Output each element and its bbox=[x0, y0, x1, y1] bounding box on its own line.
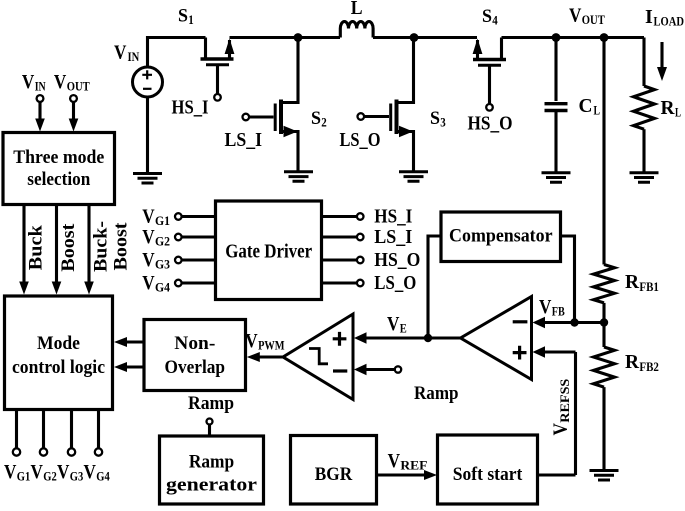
wire S4 to RL corner bbox=[502, 36, 645, 39]
wire S1 to inductor bbox=[230, 36, 341, 39]
gate driver output pins HS_I LS_I HS_O LS_O bbox=[322, 213, 364, 286]
svg-text:FB2: FB2 bbox=[639, 360, 659, 374]
svg-text:G2: G2 bbox=[155, 235, 170, 249]
wire arrow Vin into three mode box bbox=[38, 102, 41, 120]
svg-text:control logic: control logic bbox=[12, 357, 105, 378]
svg-text:generator: generator bbox=[166, 475, 258, 496]
svg-text:FB: FB bbox=[552, 305, 565, 319]
svg-text:V: V bbox=[539, 296, 552, 318]
svg-text:PWM: PWM bbox=[258, 339, 285, 353]
voltage source V_IN bbox=[133, 67, 163, 97]
svg-text:V: V bbox=[142, 226, 155, 248]
svg-text:V: V bbox=[54, 71, 67, 93]
svg-text:G4: G4 bbox=[155, 281, 171, 295]
wire ramp into comparator minus bbox=[366, 368, 395, 371]
wire VOUT down to RFB1 bbox=[602, 38, 605, 265]
svg-text:V: V bbox=[142, 249, 155, 271]
svg-text:Boost: Boost bbox=[111, 222, 132, 271]
svg-text:G4: G4 bbox=[96, 470, 110, 484]
svg-text:S: S bbox=[482, 6, 492, 27]
wire compensator left to VE node bbox=[428, 236, 441, 338]
svg-text:V: V bbox=[4, 461, 17, 483]
ground under S3 bbox=[399, 172, 428, 182]
transistor S2 bbox=[249, 38, 298, 172]
svg-text:V: V bbox=[22, 71, 35, 93]
node VFB tap junction dot bbox=[570, 318, 578, 326]
svg-text:V: V bbox=[550, 423, 572, 436]
label V_REFSS (rotated) bbox=[550, 379, 573, 436]
svg-text:Gate Driver: Gate Driver bbox=[225, 241, 312, 263]
S2 source arrowhead bbox=[284, 126, 298, 138]
svg-text:IN: IN bbox=[128, 50, 140, 64]
load current arrow I_LOAD bbox=[660, 42, 663, 70]
comparator PWM bbox=[283, 314, 353, 400]
block BGR bbox=[291, 436, 377, 505]
wire comparator output VPWM to non-overlap bbox=[257, 355, 283, 358]
ground under S2 bbox=[284, 172, 313, 182]
svg-text:I: I bbox=[645, 6, 653, 28]
svg-text:HS_O: HS_O bbox=[374, 249, 420, 271]
svg-text:HS_I: HS_I bbox=[172, 97, 209, 119]
S1 drain arrowhead bbox=[225, 39, 235, 55]
svg-text:V: V bbox=[114, 41, 127, 63]
error amp minus sign bbox=[513, 320, 528, 323]
wire arrow non-overlap to mode logic (top) bbox=[125, 340, 144, 343]
svg-text:Overlap: Overlap bbox=[165, 357, 226, 378]
transistor S4 bbox=[473, 38, 506, 105]
block Compensator bbox=[441, 212, 561, 262]
svg-text:G1: G1 bbox=[17, 470, 31, 484]
svg-text:OUT: OUT bbox=[582, 13, 606, 27]
svg-text:LOAD: LOAD bbox=[654, 15, 685, 29]
svg-text:2: 2 bbox=[321, 116, 327, 130]
wire arrow Boost bbox=[55, 206, 58, 284]
wire arrow non-overlap to mode logic (bottom) bbox=[125, 365, 144, 368]
output stub VG2 bbox=[42, 410, 45, 449]
wire source bottom to ground bbox=[146, 97, 149, 173]
svg-text:Non-: Non- bbox=[174, 333, 215, 354]
svg-text:LS_I: LS_I bbox=[374, 226, 412, 248]
svg-text:V: V bbox=[142, 272, 155, 294]
svg-text:V: V bbox=[569, 5, 582, 27]
gate driver input pins VG1-VG4 bbox=[175, 213, 216, 286]
error amp plus sign bbox=[513, 346, 527, 360]
resistor R_FB2 bbox=[594, 347, 615, 387]
resistor R_L bbox=[634, 38, 655, 173]
wire inductor to S3/S4 bbox=[373, 36, 477, 39]
svg-text:4: 4 bbox=[492, 14, 498, 28]
output stub VG4 bbox=[97, 410, 100, 449]
block Ramp generator bbox=[160, 436, 264, 504]
input terminal circle V_IN (left) bbox=[37, 95, 44, 102]
node SW2 junction dot bbox=[410, 33, 419, 42]
ramp input terminal circle bbox=[395, 366, 401, 372]
S4 drain arrowhead bbox=[473, 39, 483, 55]
svg-text:REF: REF bbox=[400, 459, 427, 473]
svg-text:G2: G2 bbox=[43, 470, 57, 484]
svg-text:V: V bbox=[84, 461, 97, 483]
output stub VG3 bbox=[70, 410, 73, 449]
ground under R_L bbox=[630, 173, 659, 183]
svg-text:3: 3 bbox=[440, 116, 446, 130]
svg-text:REFSS: REFSS bbox=[558, 379, 572, 423]
inductor L bbox=[340, 21, 373, 37]
svg-text:L: L bbox=[351, 0, 363, 19]
svg-text:LS_I: LS_I bbox=[225, 129, 263, 151]
comparator plus sign bbox=[333, 332, 347, 346]
resistor R_FB1 bbox=[594, 265, 615, 303]
svg-text:HS_O: HS_O bbox=[468, 113, 513, 135]
svg-text:HS_I: HS_I bbox=[374, 206, 412, 228]
LS_O gate terminal circle bbox=[358, 113, 365, 120]
svg-text:IN: IN bbox=[35, 80, 46, 94]
svg-text:V: V bbox=[387, 313, 400, 335]
svg-text:V: V bbox=[142, 206, 155, 228]
wire VREFSS into error amp plus bbox=[545, 350, 576, 353]
svg-text:LS_O: LS_O bbox=[340, 129, 381, 151]
wire compensator right to VFB node bbox=[561, 236, 575, 323]
svg-text:OUT: OUT bbox=[67, 80, 91, 94]
svg-text:R: R bbox=[625, 271, 640, 293]
HS_O gate terminal circle bbox=[486, 104, 493, 111]
wire arrow BGR to soft start VREF bbox=[377, 473, 427, 476]
S3 source arrowhead bbox=[399, 126, 413, 138]
svg-text:V: V bbox=[57, 461, 70, 483]
wire VREFSS vertical bbox=[574, 352, 577, 475]
svg-text:Compensator: Compensator bbox=[449, 226, 553, 247]
comparator step waveform symbol bbox=[309, 349, 328, 364]
svg-text:V: V bbox=[31, 461, 44, 483]
LS_I gate terminal circle bbox=[243, 114, 250, 121]
block Three mode selection bbox=[3, 133, 115, 205]
svg-text:LS_O: LS_O bbox=[374, 272, 416, 294]
node SW1 junction dot bbox=[294, 33, 303, 42]
block Non-Overlap bbox=[144, 320, 246, 391]
svg-text:Mode: Mode bbox=[37, 333, 80, 354]
block Soft start bbox=[438, 435, 538, 504]
input terminal circle V_OUT (left) bbox=[70, 95, 77, 102]
ground under C_L bbox=[542, 173, 571, 183]
wire RFB1 to RFB2 bbox=[602, 303, 605, 347]
wire RFB2 to ground bbox=[602, 387, 605, 470]
comparator minus sign bbox=[333, 369, 347, 372]
wire top rail from Vin source to S1 bbox=[148, 38, 206, 68]
block Mode control logic bbox=[5, 296, 113, 410]
svg-text:Soft start: Soft start bbox=[453, 464, 523, 485]
svg-text:C: C bbox=[579, 95, 593, 117]
transistor S1 bbox=[201, 38, 234, 95]
wire error amp output to comparator bbox=[366, 336, 461, 339]
svg-text:1: 1 bbox=[188, 13, 194, 27]
block Gate Driver bbox=[216, 201, 322, 300]
node RFB junction dot bbox=[600, 318, 608, 326]
svg-text:Buck: Buck bbox=[26, 225, 47, 270]
svg-text:BGR: BGR bbox=[315, 464, 353, 485]
svg-text:Ramp: Ramp bbox=[189, 452, 234, 473]
wire arrow Buck bbox=[22, 206, 25, 284]
output stub VG1 bbox=[15, 410, 18, 449]
wire arrow Buck-Boost bbox=[87, 206, 90, 284]
capacitor C_L bbox=[545, 38, 568, 173]
svg-text:S: S bbox=[430, 108, 440, 129]
op-amp error amplifier bbox=[461, 297, 532, 380]
svg-text:Ramp: Ramp bbox=[414, 383, 459, 404]
ground under V_IN source bbox=[133, 174, 162, 184]
svg-text:FB1: FB1 bbox=[639, 280, 659, 294]
svg-text:Three mode: Three mode bbox=[13, 147, 104, 168]
ramp generator output terminal bbox=[207, 419, 213, 425]
svg-text:Buck-: Buck- bbox=[91, 221, 112, 272]
svg-text:S: S bbox=[311, 108, 321, 129]
svg-text:G1: G1 bbox=[155, 214, 170, 228]
svg-text:L: L bbox=[675, 106, 681, 120]
svg-text:V: V bbox=[245, 330, 258, 352]
HS_I gate terminal circle bbox=[214, 94, 221, 101]
svg-text:selection: selection bbox=[27, 169, 90, 190]
svg-text:G3: G3 bbox=[70, 470, 84, 484]
wire soft start output to VREFSS bbox=[538, 473, 576, 476]
wire arrow Vout into three mode box bbox=[72, 102, 75, 120]
svg-text:V: V bbox=[388, 450, 401, 472]
svg-text:Boost: Boost bbox=[58, 223, 79, 272]
node VOUT junction dot at feedback bbox=[600, 33, 609, 42]
svg-text:Ramp: Ramp bbox=[188, 393, 234, 414]
svg-text:R: R bbox=[625, 351, 640, 373]
svg-text:E: E bbox=[400, 322, 407, 336]
transistor S3 bbox=[364, 38, 414, 172]
node VE junction dot bbox=[424, 334, 432, 342]
svg-text:G3: G3 bbox=[155, 258, 170, 272]
arrowhead VE into comparator plus bbox=[354, 332, 367, 343]
svg-text:S: S bbox=[178, 6, 188, 27]
node VOUT junction dot at CL bbox=[552, 33, 561, 42]
svg-text:L: L bbox=[594, 104, 601, 118]
wire VFB line into error amp minus bbox=[545, 321, 604, 324]
svg-text:R: R bbox=[661, 97, 676, 119]
ground under RFB2 bbox=[590, 471, 619, 481]
